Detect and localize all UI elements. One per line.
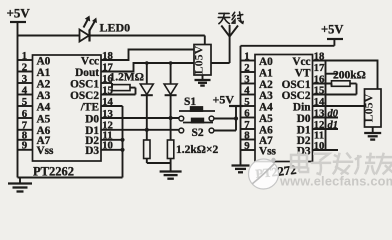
resistor R2 1.2k bbox=[167, 140, 173, 163]
svg-text:A0: A0 bbox=[259, 56, 273, 68]
svg-text:6: 6 bbox=[244, 107, 250, 119]
svg-text:200kΩ: 200kΩ bbox=[333, 70, 366, 82]
svg-text:L05V: L05V bbox=[192, 45, 206, 74]
resistor R1 1.2k bbox=[144, 140, 150, 163]
svg-text:5: 5 bbox=[244, 96, 249, 108]
wire resistor commons bbox=[147, 163, 171, 166]
wire S2 to +5V bbox=[214, 106, 236, 131]
wire pin12 D1 stub bbox=[313, 120, 339, 131]
IC U1 PT2262 body bbox=[33, 55, 102, 161]
wire S1 to +5V bbox=[214, 116, 238, 120]
svg-text:4: 4 bbox=[244, 84, 250, 96]
svg-text:17: 17 bbox=[314, 62, 325, 74]
svg-text:D0: D0 bbox=[85, 113, 99, 125]
ground (left bus) bbox=[8, 178, 32, 192]
svg-text:A1: A1 bbox=[259, 67, 273, 79]
svg-text:www.elecfans.com: www.elecfans.com bbox=[279, 174, 392, 189]
ground (TX module) bbox=[195, 75, 211, 86]
wire pin12 D1 to S2 bbox=[101, 129, 179, 131]
wire +5V to LED anode bbox=[18, 35, 80, 37]
svg-text:/TE: /TE bbox=[80, 101, 99, 113]
+5V power (switch rail) bbox=[213, 93, 244, 107]
ground (pulldown resistors) bbox=[160, 166, 182, 179]
svg-text:9: 9 bbox=[22, 140, 28, 152]
svg-text:Dout: Dout bbox=[75, 67, 99, 79]
svg-text:A4: A4 bbox=[37, 101, 51, 113]
svg-text:A1: A1 bbox=[37, 67, 51, 79]
pushbutton S1 bbox=[179, 96, 215, 121]
svg-text:+5V: +5V bbox=[321, 23, 343, 37]
svg-text:1: 1 bbox=[22, 50, 27, 62]
svg-text:OSC2: OSC2 bbox=[70, 90, 99, 102]
RX module L05V bbox=[362, 89, 381, 127]
U1 right pin names Vcc Dout OSC1 OSC2 /TE D0-D3 bbox=[70, 55, 99, 157]
diode D1 (to D1 line) bbox=[140, 61, 153, 140]
svg-text:1.2MΩ: 1.2MΩ bbox=[110, 72, 144, 84]
svg-text:Vss: Vss bbox=[37, 145, 55, 157]
+5V power rail (top left) bbox=[7, 6, 31, 36]
svg-text:9: 9 bbox=[244, 140, 250, 152]
svg-text:5: 5 bbox=[22, 96, 27, 108]
svg-text:d0: d0 bbox=[328, 108, 339, 119]
svg-text:6: 6 bbox=[22, 108, 28, 120]
svg-text:Vcc: Vcc bbox=[81, 55, 99, 67]
svg-text:OSC1: OSC1 bbox=[70, 78, 99, 90]
wire ground return under U1 bbox=[18, 177, 123, 179]
watermark logo circle bbox=[249, 158, 279, 189]
IC U2 PT2272 body bbox=[255, 55, 313, 162]
svg-text:1.2kΩ×2: 1.2kΩ×2 bbox=[176, 144, 219, 156]
svg-text:L05V: L05V bbox=[362, 93, 376, 122]
svg-text:D0: D0 bbox=[297, 113, 311, 125]
wire +5V stem / PT2262 address bus vertical bbox=[17, 36, 19, 178]
svg-text:Vss: Vss bbox=[259, 145, 277, 157]
U2 left pin names A0-A7 Vss bbox=[259, 56, 277, 158]
svg-text:3: 3 bbox=[22, 73, 28, 85]
LED LED0 bbox=[80, 16, 131, 42]
svg-text:+5V: +5V bbox=[213, 93, 235, 107]
svg-text:Vcc: Vcc bbox=[292, 56, 310, 68]
svg-text:A4: A4 bbox=[259, 101, 273, 113]
svg-text:S2: S2 bbox=[192, 127, 204, 139]
resistor 1.2MΩ (OSC) bbox=[101, 72, 144, 95]
svg-text:D3: D3 bbox=[85, 145, 99, 157]
svg-text:2: 2 bbox=[22, 61, 27, 73]
wire pin10 D3 to ground collector bbox=[101, 148, 125, 152]
svg-text:d1: d1 bbox=[328, 120, 339, 131]
IC U2 label PT2272 bbox=[255, 163, 297, 181]
svg-text:Din: Din bbox=[293, 101, 311, 113]
svg-text:LED0: LED0 bbox=[100, 21, 131, 35]
wire pin14 Din to RX module bbox=[313, 105, 365, 107]
TX module L05V bbox=[192, 45, 212, 76]
ground (RX module) bbox=[364, 127, 381, 140]
svg-text:2: 2 bbox=[244, 62, 249, 74]
watermark url www.elecfans.com bbox=[279, 174, 392, 189]
wire pin10 D3 stub bbox=[313, 149, 339, 151]
U2 pin numbers 18-10 bbox=[314, 50, 326, 152]
svg-text:4: 4 bbox=[22, 84, 28, 96]
wire LED cathode to TX module +V bbox=[90, 36, 205, 45]
wire pin13 D0 to S1 bbox=[101, 117, 179, 119]
U1 pins 1-9 stubs and numbers bbox=[18, 50, 33, 152]
svg-text:OSC2: OSC2 bbox=[282, 90, 311, 102]
svg-text:S1: S1 bbox=[184, 96, 196, 108]
svg-text:A0: A0 bbox=[37, 55, 51, 67]
svg-text:A3: A3 bbox=[37, 90, 51, 102]
U2 address bus vertical bbox=[240, 46, 242, 163]
wire pin14 /TE to ground collector bbox=[101, 106, 123, 178]
ground (U2 address bus) bbox=[232, 163, 250, 172]
pushbutton S2 bbox=[179, 118, 214, 139]
svg-text:PT2262: PT2262 bbox=[33, 165, 74, 179]
wire pin18 Vcc to RX module bbox=[313, 61, 378, 90]
U1 pin numbers 18-10 bbox=[102, 50, 113, 152]
+5V power (top right) bbox=[241, 23, 344, 46]
svg-text:+5V: +5V bbox=[7, 6, 31, 21]
resistor 200kΩ (OSC) bbox=[313, 70, 366, 95]
svg-text:A5: A5 bbox=[259, 113, 273, 125]
label 1.2kΩ×2 bbox=[176, 144, 219, 156]
wire pin11 D2 to ground collector bbox=[101, 138, 125, 142]
U2 right pin names Vcc VT OSC1 OSC2 Din D0-D3 bbox=[282, 56, 312, 158]
wire pin13 D0 stub bbox=[313, 108, 339, 119]
svg-text:A3: A3 bbox=[259, 90, 273, 102]
U2 pins 1-9 stubs and numbers bbox=[241, 50, 256, 152]
diode D2 (to D0 line) bbox=[164, 61, 177, 140]
svg-text:A5: A5 bbox=[37, 113, 51, 125]
IC U1 label PT2262 bbox=[33, 165, 74, 179]
wire pin17 Dout to TX module / diode rail bbox=[101, 63, 194, 72]
antenna tianxian bbox=[211, 12, 243, 63]
svg-text:VT: VT bbox=[295, 67, 311, 79]
svg-text:A2: A2 bbox=[37, 78, 51, 90]
watermark text dianzifashaoyou bbox=[291, 152, 392, 175]
wire pin18 Vcc to TX module bbox=[101, 50, 194, 61]
U1 left pin names A0-A7 Vss bbox=[37, 55, 55, 157]
svg-text:1: 1 bbox=[244, 50, 249, 62]
